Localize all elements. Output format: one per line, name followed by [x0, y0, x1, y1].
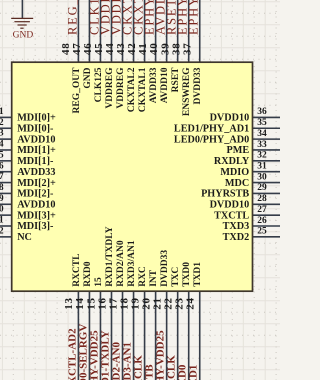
- svg-text:9: 9: [0, 194, 4, 204]
- svg-text:30: 30: [257, 172, 267, 182]
- svg-text:AVDD33: AVDD33: [149, 67, 159, 103]
- svg-text:GND: GND: [13, 30, 34, 40]
- svg-text:RXC: RXC: [138, 266, 148, 287]
- svg-text:29: 29: [257, 183, 267, 193]
- svg-text:37: 37: [181, 42, 193, 55]
- svg-text:XD1: XD1: [188, 365, 200, 380]
- svg-text:15: 15: [94, 277, 104, 287]
- svg-text:4: 4: [0, 140, 4, 150]
- svg-text:MDIO: MDIO: [220, 167, 249, 178]
- svg-text:MDI[1]+: MDI[1]+: [17, 145, 56, 156]
- svg-text:10: 10: [0, 205, 4, 215]
- svg-text:25: 25: [257, 227, 267, 237]
- svg-text:DVDD33: DVDD33: [160, 250, 170, 287]
- svg-text:NC: NC: [17, 232, 32, 243]
- svg-text:1: 1: [0, 107, 4, 117]
- svg-text:DVDD33: DVDD33: [193, 67, 203, 104]
- svg-text:AVDD10: AVDD10: [17, 134, 55, 145]
- svg-text:31: 31: [257, 162, 267, 172]
- svg-text:11: 11: [0, 216, 4, 226]
- svg-text:TXD0: TXD0: [182, 262, 192, 287]
- svg-text:33: 33: [257, 140, 267, 150]
- svg-text:RXD0: RXD0: [83, 261, 93, 287]
- svg-text:AVDD10: AVDD10: [17, 200, 55, 211]
- svg-text:CKXTAL2: CKXTAL2: [127, 67, 137, 112]
- svg-text:TXC: TXC: [171, 267, 181, 287]
- svg-text:35: 35: [257, 118, 267, 128]
- svg-text:LED1/PHY_AD1: LED1/PHY_AD1: [174, 124, 249, 135]
- svg-text:MDC: MDC: [225, 178, 249, 189]
- svg-text:36: 36: [257, 107, 267, 117]
- svg-text:3: 3: [0, 129, 4, 139]
- svg-text:VDDREG: VDDREG: [105, 67, 115, 109]
- svg-text:PHYRSTB: PHYRSTB: [201, 189, 249, 200]
- svg-text:27: 27: [257, 205, 267, 215]
- svg-text:8: 8: [0, 183, 4, 193]
- svg-text:MDI[3]-: MDI[3]-: [17, 221, 54, 232]
- svg-text:MDI[1]-: MDI[1]-: [17, 156, 54, 167]
- svg-text:AVDD33: AVDD33: [17, 167, 55, 178]
- svg-text:RXD1/TXDLY: RXD1/TXDLY: [105, 226, 115, 286]
- svg-text:32: 32: [257, 151, 267, 161]
- svg-text:REG_OUT: REG_OUT: [72, 67, 82, 114]
- svg-text:LED0/PHY_AD0: LED0/PHY_AD0: [174, 134, 249, 145]
- svg-text:PME: PME: [227, 145, 250, 156]
- svg-text:28: 28: [257, 194, 267, 204]
- svg-text:DVDD10: DVDD10: [210, 113, 250, 124]
- svg-text:ENSWREG: ENSWREG: [182, 67, 192, 116]
- svg-text:MDI[2]-: MDI[2]-: [17, 189, 54, 200]
- svg-text:5: 5: [0, 150, 4, 160]
- svg-text:CKXTAL1: CKXTAL1: [138, 67, 148, 112]
- svg-text:RXD2/AN0: RXD2/AN0: [116, 240, 126, 287]
- svg-text:26: 26: [257, 216, 267, 226]
- svg-text:VDDREG: VDDREG: [116, 67, 126, 109]
- svg-text:MDI[3]+: MDI[3]+: [17, 210, 56, 221]
- svg-text:24: 24: [185, 297, 197, 310]
- svg-text:RXCTL: RXCTL: [72, 254, 82, 287]
- svg-text:RXDLY: RXDLY: [214, 156, 250, 167]
- svg-text:INT: INT: [149, 269, 159, 287]
- svg-text:TXCTL: TXCTL: [214, 210, 249, 221]
- svg-text:REG_OUT: REG_OUT: [65, 0, 79, 35]
- svg-text:AVDD10: AVDD10: [160, 67, 170, 103]
- svg-text:MDI[0]-: MDI[0]-: [17, 124, 54, 135]
- svg-text:34: 34: [257, 129, 267, 139]
- svg-text:2: 2: [0, 118, 4, 128]
- svg-text:GND: GND: [83, 67, 93, 88]
- svg-text:6: 6: [0, 161, 4, 171]
- svg-text:7: 7: [0, 172, 4, 182]
- svg-text:RXD3/AN1: RXD3/AN1: [127, 240, 137, 287]
- svg-text:MDI[2]+: MDI[2]+: [17, 178, 56, 189]
- svg-text:MDI[0]+: MDI[0]+: [17, 113, 56, 124]
- svg-text:EPHY-33: EPHY-33: [187, 0, 201, 35]
- svg-text:TXD2: TXD2: [223, 232, 250, 243]
- svg-text:RSET: RSET: [171, 67, 181, 92]
- svg-text:12: 12: [0, 227, 4, 237]
- svg-text:DVDD10: DVDD10: [210, 200, 250, 211]
- svg-text:CLK125: CLK125: [94, 67, 104, 102]
- svg-text:TXD3: TXD3: [223, 221, 250, 232]
- svg-text:TXD1: TXD1: [193, 262, 203, 287]
